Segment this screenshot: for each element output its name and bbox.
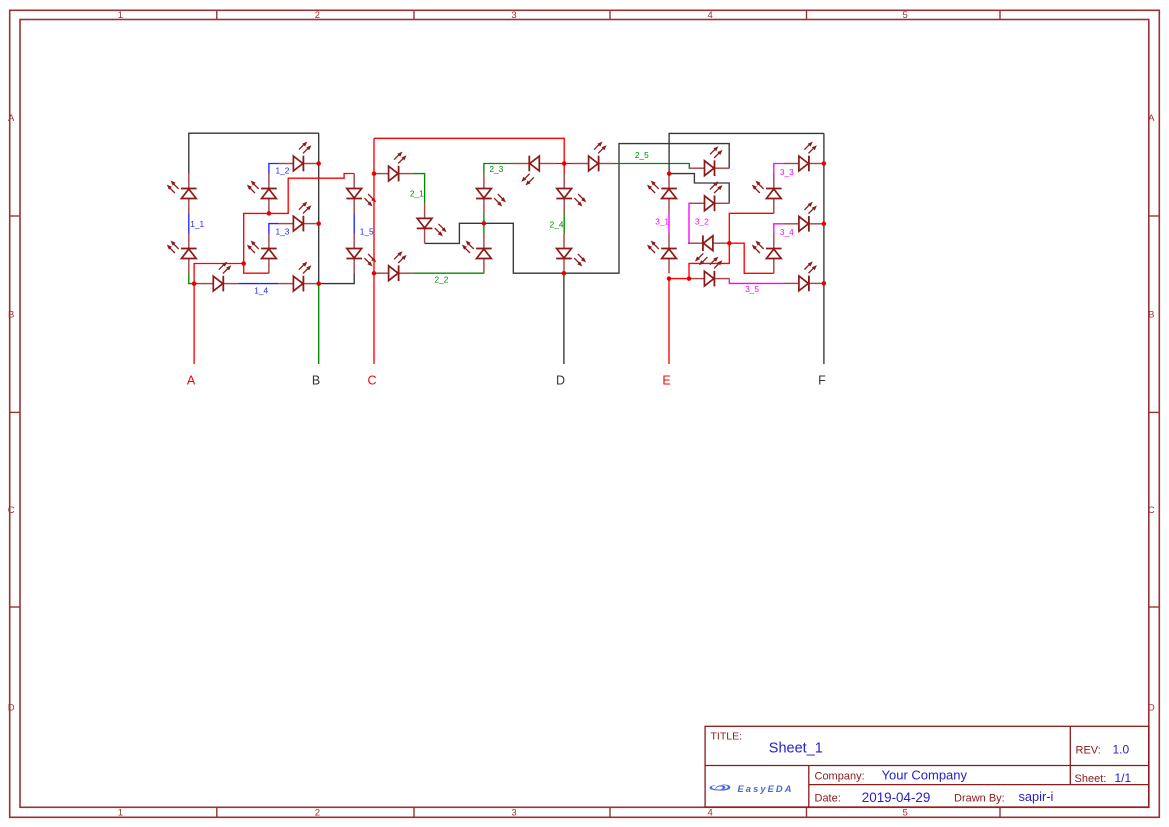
svg-text:3_5: 3_5 — [745, 284, 759, 294]
wire net B to col3 bottom LED — [319, 273, 355, 283]
svg-text:2_1: 2_1 — [410, 189, 424, 199]
LED D13 (pair 2_3 right, points left) — [514, 156, 554, 186]
svg-text:5: 5 — [903, 10, 908, 21]
EasyEDA logo — [710, 784, 794, 794]
svg-text:B: B — [312, 373, 320, 387]
wire magenta net 3_1 — [668, 214, 670, 234]
svg-text:2: 2 — [315, 10, 320, 21]
svg-text:1: 1 — [118, 807, 123, 818]
wire green 2_3 chain mid — [483, 213, 485, 233]
LED D12 (pair 2_1 bottom) — [417, 203, 447, 243]
wire green net 2_4 — [563, 213, 565, 233]
wire red to col2 bottom LED — [244, 264, 269, 274]
svg-text:Company:: Company: — [815, 771, 865, 783]
svg-text:1_2: 1_2 — [276, 165, 290, 175]
LED D17 (pair 2_4 top) — [556, 174, 586, 214]
svg-text:sapir-i: sapir-i — [1019, 789, 1054, 804]
svg-text:1_5: 1_5 — [360, 227, 374, 237]
svg-text:4: 4 — [708, 10, 713, 21]
junction on net A — [192, 281, 197, 286]
wire black F jog to LED 3_2 top — [669, 174, 729, 204]
wire green net 2_5 — [614, 164, 690, 169]
LED D24 (pair 3_2 bottom, points left) — [688, 235, 728, 265]
svg-text:1_3: 1_3 — [276, 227, 290, 237]
wire net B black top — [189, 133, 319, 173]
svg-text:D: D — [8, 702, 15, 713]
svg-text:2: 2 — [315, 807, 320, 818]
LED D10 (pair 1_5 bottom, col3) — [346, 234, 376, 274]
LED D11 (pair 2_1 left) — [374, 152, 414, 182]
junction 2_3 chain black tap — [482, 221, 487, 226]
junction net B at D3 — [316, 161, 321, 166]
LED D8 (pair 1_4 right) — [278, 262, 318, 292]
svg-text:B: B — [1148, 309, 1154, 320]
wire blue net 1_2 — [269, 164, 279, 174]
LED D14 (pair 2_3 mid) — [476, 174, 506, 214]
junction net E — [667, 276, 672, 281]
svg-text:TITLE:: TITLE: — [711, 731, 743, 743]
wire net F vertical + tail — [823, 133, 825, 364]
junction net B at D5 — [316, 221, 321, 226]
LED D4 (pair 1_2 left, col2 top) — [247, 174, 277, 214]
svg-text:Drawn By:: Drawn By: — [954, 793, 1005, 805]
wire magenta net 3_5 — [729, 279, 784, 284]
svg-text:A: A — [187, 373, 196, 387]
svg-text:D: D — [1148, 702, 1155, 713]
LED D29 (pair 3_5 left) — [689, 257, 729, 287]
wire red to 3_4 mid LED — [729, 243, 774, 273]
wire net A red tail — [193, 284, 195, 364]
svg-text:1.0: 1.0 — [1113, 743, 1130, 757]
svg-text:2_5: 2_5 — [635, 150, 649, 160]
wire net E red tail — [668, 279, 670, 364]
wire blue net 1_3 — [269, 224, 279, 234]
junction net C at D11 — [372, 171, 377, 176]
LED D6 (pair 1_3 left, col2 bottom) — [247, 234, 277, 274]
LED D16 (pair 2_2 left) — [374, 251, 414, 281]
junction red net E at D24 — [727, 241, 732, 246]
wire green net 2_2 — [414, 272, 484, 274]
svg-text:EasyEDA: EasyEDA — [738, 784, 794, 794]
LED D7 (pair 1_4 left) — [198, 262, 238, 292]
wire green net 2_3 — [484, 164, 514, 174]
svg-text:C: C — [367, 373, 376, 387]
wire red stubs at 2_3/2_5 junction — [554, 164, 573, 174]
LED D27 (pair 3_4 mid) — [752, 234, 782, 274]
svg-text:F: F — [818, 373, 826, 387]
junction net D — [562, 271, 567, 276]
LED D26 (pair 3_3 right) — [784, 142, 824, 172]
wire black 2_3 chain to net D — [484, 223, 564, 273]
wire net B vertical — [318, 133, 320, 283]
LED D9 (pair 1_5 top, col3) — [346, 174, 376, 214]
svg-text:3: 3 — [511, 10, 516, 21]
LED D2 (pair 1_1 bottom) — [167, 234, 197, 274]
title block — [705, 726, 1149, 807]
svg-text:3_4: 3_4 — [780, 227, 794, 237]
junction net F at D21 pin — [667, 171, 672, 176]
LED D23 (pair 3_2 top) — [690, 181, 730, 211]
svg-text:REV:: REV: — [1076, 745, 1101, 757]
LED D19 (pair 2_5 left) — [574, 142, 614, 172]
LED D15 (pair 2_2 right) — [462, 234, 492, 274]
wire red net E bottom row — [669, 278, 689, 280]
svg-text:1: 1 — [118, 10, 123, 21]
wire black net D riser to block3 — [564, 144, 729, 274]
LED D3 (pair 1_2 right) — [278, 142, 318, 172]
wire black 2_1 bottom to 2_3 chain — [425, 223, 484, 243]
wire red to 3_3 mid LED — [729, 213, 774, 243]
svg-text:3_2: 3_2 — [695, 217, 709, 227]
svg-text:Sheet_1: Sheet_1 — [769, 741, 823, 757]
LED D5 (pair 1_3 right) — [278, 202, 318, 232]
svg-text:3_1: 3_1 — [655, 217, 669, 227]
svg-text:2_3: 2_3 — [489, 164, 503, 174]
wire magenta net 3_2 — [688, 203, 690, 243]
wire green bend LED A2 to net A — [189, 273, 194, 283]
wire net B green tail — [318, 284, 320, 364]
svg-text:5: 5 — [903, 807, 908, 818]
svg-text:A: A — [1148, 113, 1155, 124]
wire red top of block 2 — [374, 138, 564, 163]
junction red wire at D4 pin — [267, 211, 272, 216]
LED D1 (pair 1_1 top) — [167, 174, 197, 214]
wire red E riser to 3_2 bottom junction — [689, 243, 729, 278]
svg-text:2019-04-29: 2019-04-29 — [862, 790, 931, 805]
svg-text:Date:: Date: — [815, 793, 841, 805]
svg-text:1_1: 1_1 — [190, 219, 204, 229]
junction net F at D26 — [822, 161, 827, 166]
svg-text:A: A — [8, 113, 15, 124]
svg-text:3: 3 — [511, 807, 516, 818]
svg-text:E: E — [662, 373, 670, 387]
LED D28 (pair 3_4 right) — [784, 202, 824, 232]
LED D18 (pair 2_4 bottom) — [556, 234, 586, 274]
junction net C at D16 — [372, 271, 377, 276]
junction net F at D28 — [822, 222, 827, 227]
junction net B at D8 — [316, 281, 321, 286]
wire magenta net 3_3 — [774, 164, 784, 174]
wire blue net 1_5 — [353, 214, 355, 234]
wire blue net 1_1 — [188, 214, 190, 234]
LED D25 (pair 3_3 mid) — [752, 174, 782, 214]
junction net E at D29 pin — [687, 276, 692, 281]
wire blue net 1_4 — [238, 283, 278, 285]
LED D20 (pair 2_5 right) — [690, 146, 730, 176]
LED D21 (pair 3_1 top) — [647, 174, 677, 214]
svg-text:B: B — [8, 309, 14, 320]
junction red riser net A — [241, 261, 246, 266]
junction red top at D13 — [562, 161, 567, 166]
svg-text:2_4: 2_4 — [550, 220, 564, 230]
LED D22 (pair 3_1 bottom) — [647, 234, 677, 274]
wire red to col2 top LED and col3 top LED — [244, 174, 355, 264]
wire magenta net 3_4 — [774, 224, 784, 234]
svg-text:1_4: 1_4 — [254, 286, 268, 296]
svg-text:4: 4 — [708, 807, 713, 818]
svg-text:3_3: 3_3 — [780, 167, 794, 177]
svg-text:Your Company: Your Company — [882, 768, 968, 783]
wire green net 2_1 — [414, 174, 425, 204]
wire red stub at A junction — [194, 283, 198, 285]
svg-text:C: C — [8, 505, 15, 516]
LED D30 (pair 3_5 right) — [784, 261, 824, 291]
svg-text:D: D — [556, 373, 565, 387]
junction net F at D30 — [822, 281, 827, 286]
svg-text:Sheet:: Sheet: — [1075, 773, 1107, 785]
svg-text:2_2: 2_2 — [435, 274, 449, 284]
wire red net A riser — [194, 264, 244, 284]
wire net D black tail — [563, 273, 565, 364]
wire net F black top — [669, 133, 824, 173]
svg-text:C: C — [1148, 505, 1155, 516]
wire net C red vertical — [373, 138, 375, 364]
svg-text:1/1: 1/1 — [1115, 771, 1132, 785]
